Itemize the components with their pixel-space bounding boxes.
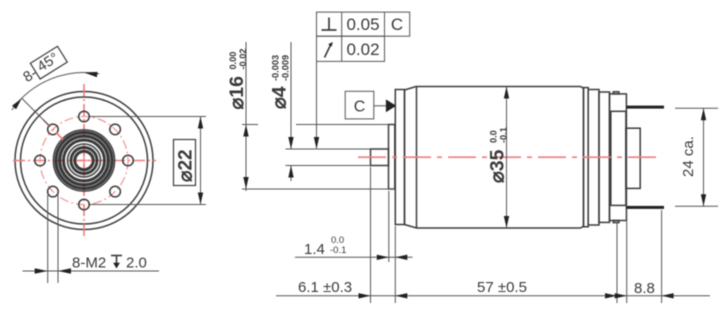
- feature control frame runout: [317, 36, 385, 61]
- motor outer circle: [15, 92, 153, 230]
- 45deg angle arc: [12, 73, 99, 110]
- hole 1:30: [110, 124, 121, 135]
- dia22 top extension line: [90, 116, 206, 118]
- ext 8.8 right: [661, 210, 663, 303]
- hub outer ring r30.6: [53, 130, 114, 191]
- flange inner circle: [21, 97, 148, 224]
- 57 arrow right: [605, 293, 617, 298]
- arc arrow left: [12, 98, 22, 109]
- dia35 arrow bottom: [504, 216, 509, 228]
- svg-text:6.1 ±0.3: 6.1 ±0.3: [298, 279, 352, 296]
- svg-text:2.0: 2.0: [126, 255, 147, 272]
- svg-text:⌀35: ⌀35: [487, 149, 509, 183]
- dia16 extension bottom: [242, 188, 395, 190]
- datum leader: [374, 105, 387, 107]
- svg-text:8.8: 8.8: [634, 280, 655, 297]
- 1.4 arrow right: [395, 255, 407, 260]
- svg-text:-0.1: -0.1: [498, 127, 508, 143]
- dia22 arrow bottom: [198, 193, 203, 205]
- arc arrow top: [84, 72, 98, 77]
- dia4 arrow bottom: [288, 166, 293, 178]
- svg-text:⌀22: ⌀22: [176, 149, 197, 182]
- rear boss: [626, 128, 640, 188]
- body seam line: [416, 87, 418, 229]
- rear ring B: [588, 90, 599, 226]
- dia4 dim line top: [290, 42, 292, 149]
- hub ring r16.5: [68, 144, 101, 177]
- svg-text:-0.003: -0.003: [271, 55, 281, 81]
- 6.1 arrow left: [359, 293, 371, 298]
- datum C box: [345, 91, 374, 119]
- FCF leader: [316, 61, 318, 148]
- svg-text:1.4: 1.4: [304, 241, 325, 258]
- svg-text:-0.1: -0.1: [330, 245, 346, 256]
- terminal bottom: [626, 206, 664, 209]
- svg-text:24 ca.: 24 ca.: [680, 136, 697, 177]
- side view centerline (red): [358, 156, 658, 158]
- 8-M2 leader line: [23, 270, 160, 272]
- dia22 dimension line: [200, 117, 202, 205]
- rear ring A: [584, 88, 589, 227]
- hole 3:00: [123, 155, 134, 166]
- dia4 dim line bottom: [290, 166, 292, 182]
- dia22 bottom extension line: [90, 204, 206, 206]
- 8-M2 arrow left: [35, 268, 48, 273]
- rear end bell: [610, 94, 627, 221]
- hub ring r28: [56, 133, 112, 189]
- svg-text:0.0: 0.0: [489, 130, 499, 143]
- dia22 label box: [174, 140, 196, 186]
- ext 8.8 left: [626, 210, 628, 303]
- dia4 arrow top: [288, 137, 293, 149]
- dia35 dim line: [506, 87, 508, 229]
- 1.4 ext boss: [388, 191, 390, 262]
- 24ca arrow top: [701, 108, 706, 120]
- front horizontal centerline (red, under hub): [13, 160, 156, 162]
- hole 4:30: [110, 186, 121, 197]
- dia4 extension top: [286, 148, 371, 150]
- ext 57 right: [616, 222, 618, 303]
- dia4 label: [269, 55, 291, 109]
- 24ca ext bottom: [675, 205, 718, 207]
- 6.1/57 arrow: [395, 293, 407, 298]
- dia16 arrow top: [243, 125, 248, 137]
- dia16 extension top: [242, 124, 258, 126]
- svg-text:-0.009: -0.009: [280, 55, 290, 81]
- 8-M2 arrow right: [58, 268, 71, 273]
- svg-text:0.02: 0.02: [346, 40, 379, 59]
- svg-text:8-M2: 8-M2: [72, 255, 106, 272]
- bottom dim line: [276, 295, 710, 297]
- dia4 extension bottom: [286, 165, 371, 167]
- hole 12:00: [79, 111, 90, 122]
- red radial 135deg: [42, 119, 63, 140]
- 24ca ext top: [675, 107, 718, 109]
- end face rect: [611, 111, 626, 205]
- 24ca dim line: [703, 108, 705, 206]
- label 8-45 basic: [19, 46, 67, 86]
- dia35 label: [487, 127, 509, 183]
- dia35 arrow top: [504, 87, 509, 99]
- mounting holes 8x M2: [35, 111, 134, 210]
- hole 6:00: [79, 199, 90, 210]
- hole 7:30: [48, 186, 59, 197]
- 8.8 arrow left: [615, 293, 627, 298]
- 1.4 dim line: [295, 256, 413, 258]
- svg-text:⌀16: ⌀16: [226, 76, 248, 110]
- mounting plate: [395, 90, 404, 225]
- red center cross redraw: [76, 153, 92, 169]
- svg-text:0.05: 0.05: [346, 15, 379, 34]
- runout symbol: [325, 45, 331, 58]
- end bell tab bottom: [613, 221, 619, 223]
- 24ca arrow bottom: [701, 194, 706, 206]
- 1.4 ext plate: [394, 226, 396, 303]
- dia16 label: [226, 49, 248, 110]
- svg-text:-0.02: -0.02: [238, 49, 248, 70]
- dia16 dim line: [245, 42, 247, 191]
- ext shaft end: [370, 167, 372, 303]
- hole 9:00: [35, 155, 46, 166]
- perpendicularity symbol: [322, 18, 337, 31]
- hole 10:30: [48, 124, 59, 135]
- depth symbol: [111, 256, 122, 267]
- 8-M2 hole extension lines: [47, 195, 49, 283]
- pilot boss dia16: [389, 125, 395, 190]
- 8.8 arrow right: [662, 293, 674, 298]
- svg-text:C: C: [354, 99, 366, 116]
- terminal top: [626, 106, 664, 109]
- datum triangle: [386, 99, 396, 112]
- front vertical centerline (red, under hub): [83, 84, 85, 237]
- motor body outline: [405, 87, 584, 229]
- bolt circle (red dash-dot): [40, 117, 128, 205]
- 1.4 arrow left: [377, 255, 389, 260]
- dia16 arrow bottom: [243, 177, 248, 189]
- svg-text:C: C: [391, 15, 403, 34]
- hub ring r13: [71, 148, 97, 174]
- shaft: [371, 149, 389, 166]
- rear section C: [599, 92, 610, 222]
- 45deg extension line (radial at 135deg): [22, 98, 51, 127]
- svg-text:⌀4: ⌀4: [269, 86, 291, 109]
- FCF leader arrow: [314, 137, 319, 149]
- hub ring r24: [60, 136, 109, 185]
- svg-text:0.00: 0.00: [228, 52, 238, 70]
- hub ring r20: [64, 140, 105, 181]
- hub ring r9: [75, 151, 93, 169]
- svg-text:57 ±0.5: 57 ±0.5: [477, 279, 527, 296]
- feature control frame perpendicularity: [317, 12, 410, 36]
- dia22 arrow top: [198, 117, 203, 129]
- end bell tab top: [613, 92, 619, 94]
